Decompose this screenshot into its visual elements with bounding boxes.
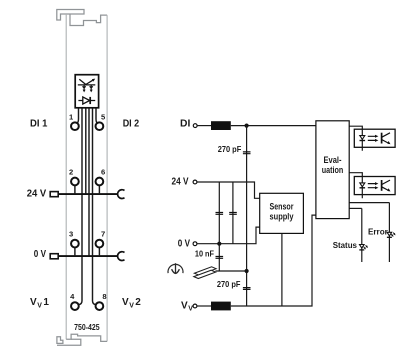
svg-text:Status: Status xyxy=(333,240,358,250)
status line xyxy=(349,207,362,209)
Vv rail to evaluation xyxy=(231,215,316,306)
junction dot DI xyxy=(245,124,249,128)
0V rail into sensor supply xyxy=(197,227,260,244)
error line xyxy=(349,202,389,204)
sensor supply box xyxy=(260,193,304,233)
LED symbol arrow up-right xyxy=(86,80,93,84)
svg-text:DI 2: DI 2 xyxy=(123,119,140,130)
svg-text:V: V xyxy=(181,301,188,312)
module left edge xyxy=(65,14,67,339)
0V left connector rect xyxy=(50,254,58,259)
sensor supply output xyxy=(281,233,283,306)
24V jumper contact arc xyxy=(118,190,125,199)
svg-text:24 V: 24 V xyxy=(172,177,189,188)
shield bar symbol xyxy=(194,267,216,279)
10nF plates xyxy=(216,257,224,259)
24V rail into sensor supply xyxy=(197,182,260,198)
terminal circle 2 xyxy=(71,178,79,186)
svg-text:V: V xyxy=(37,302,42,309)
svg-text:DI: DI xyxy=(180,119,191,130)
wire box to terminal 4 xyxy=(78,108,82,305)
LED symbol bar xyxy=(78,84,96,86)
svg-text:270 pF: 270 pF xyxy=(217,279,241,289)
module top profile steps xyxy=(70,14,107,26)
0V jumper contact arc xyxy=(118,252,125,261)
vertical DI-to-Vv coupling line xyxy=(246,126,248,306)
electronics box xyxy=(75,75,98,108)
svg-text:DI 1: DI 1 xyxy=(30,119,48,130)
svg-text:270 pF: 270 pF xyxy=(218,144,242,154)
LED down arrow left xyxy=(83,85,86,90)
blocking cap A plates xyxy=(216,213,224,215)
0V terminal circle xyxy=(193,242,197,246)
blocking cap A line xyxy=(218,182,220,244)
terminal 3 stem xyxy=(74,247,76,256)
wire from box to terminal 1 xyxy=(76,108,78,124)
Vv terminal circle xyxy=(193,304,197,308)
svg-text:V: V xyxy=(188,306,193,313)
optocoupler 1 box xyxy=(354,129,395,147)
svg-text:7: 7 xyxy=(101,230,105,239)
opto2 feed xyxy=(349,173,362,199)
terminal circle 4 xyxy=(71,302,79,310)
blocking cap B line xyxy=(232,182,234,244)
svg-text:supply: supply xyxy=(270,212,295,223)
svg-text:5: 5 xyxy=(101,112,106,121)
diode triangle xyxy=(83,97,90,104)
terminal 2 stem xyxy=(74,185,76,194)
wire from box to terminal 5 xyxy=(96,108,98,124)
Vv filter block xyxy=(211,302,231,311)
terminal circle 1 xyxy=(71,122,79,130)
evaluation box xyxy=(316,121,349,219)
svg-text:1: 1 xyxy=(69,112,74,121)
svg-text:2: 2 xyxy=(69,168,73,177)
terminal circle 3 xyxy=(71,240,79,248)
junction dot 0V xyxy=(217,242,221,246)
diode symbol line xyxy=(78,100,95,102)
wire box to 24V bus xyxy=(85,108,87,194)
svg-text:uation: uation xyxy=(322,165,344,176)
terminal 7 stem xyxy=(98,247,100,256)
optocoupler 2 box xyxy=(354,177,395,195)
blocking cap B plates xyxy=(229,213,237,215)
module bottom profile steps xyxy=(66,334,107,341)
LED symbol diagonal xyxy=(79,79,86,84)
junction dot shield xyxy=(245,269,249,273)
diode cathode bar xyxy=(89,97,91,104)
terminal 6 stem xyxy=(98,185,100,194)
svg-text:3: 3 xyxy=(69,230,73,239)
terminal circle 5 xyxy=(96,122,104,130)
svg-text:1: 1 xyxy=(43,297,49,308)
capacitor 270pF top plates xyxy=(243,152,251,154)
Vv line to filter xyxy=(197,305,211,307)
svg-text:V: V xyxy=(30,297,37,308)
svg-text:10 nF: 10 nF xyxy=(195,249,214,259)
earth arc symbol xyxy=(168,264,183,273)
module bottom hook xyxy=(57,337,63,344)
svg-text:0 V: 0 V xyxy=(34,249,46,260)
10nF cap line xyxy=(218,244,220,271)
module right edge xyxy=(106,15,108,341)
svg-text:750-425: 750-425 xyxy=(74,323,100,332)
DI line to filter xyxy=(197,125,211,127)
module bottom foot xyxy=(57,339,81,345)
terminal circle 7 xyxy=(96,240,104,248)
24V left connector rect xyxy=(50,192,58,197)
capacitor 270pF bottom plates xyxy=(243,288,251,290)
Status LED xyxy=(359,208,368,262)
terminal circle 8 xyxy=(96,302,104,310)
svg-text:4: 4 xyxy=(70,292,75,301)
svg-text:24 V: 24 V xyxy=(27,189,47,200)
svg-text:Error: Error xyxy=(368,226,389,236)
svg-text:6: 6 xyxy=(101,168,105,177)
Error LED xyxy=(387,203,396,262)
module top profile hook and bar xyxy=(57,10,84,21)
opto1 feed xyxy=(349,126,362,151)
svg-text:8: 8 xyxy=(102,292,106,301)
LED down arrow right xyxy=(90,85,93,90)
svg-text:0 V: 0 V xyxy=(178,238,190,249)
shield line xyxy=(216,270,247,272)
svg-text:2: 2 xyxy=(135,297,141,308)
svg-text:V: V xyxy=(129,302,134,309)
terminal circle 6 xyxy=(96,178,104,186)
DI line to evaluation xyxy=(231,125,316,127)
wire box to terminal 8 xyxy=(93,108,97,305)
24V terminal circle xyxy=(193,180,197,184)
wire box to 0V bus xyxy=(88,108,90,256)
0V bus xyxy=(58,255,118,257)
24V bus xyxy=(58,193,118,195)
DI terminal circle xyxy=(193,124,197,128)
svg-text:V: V xyxy=(122,297,129,308)
DI filter block xyxy=(211,121,231,130)
